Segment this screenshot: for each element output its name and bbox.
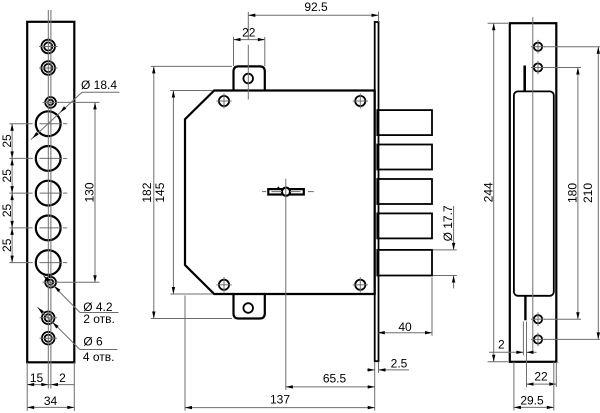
extension line O4.2 top xyxy=(57,101,100,103)
body screw hole bottom right xyxy=(353,277,368,292)
screw hole 4 xyxy=(531,333,545,347)
bolt 3 xyxy=(377,179,432,204)
bolt 1 xyxy=(377,110,432,135)
dimension 244 xyxy=(481,23,508,362)
bolt 2 xyxy=(377,145,432,170)
screw hole 3 xyxy=(531,312,545,326)
extension hole3 right xyxy=(544,318,581,320)
faceplate side outline xyxy=(510,23,557,362)
svg-text:Ø 6: Ø 6 xyxy=(83,335,103,349)
extension hole4 right xyxy=(544,338,600,340)
dimension 182 xyxy=(140,66,232,318)
extension line O4.2 bottom xyxy=(57,281,100,283)
leader O4.2 2 holes xyxy=(43,276,118,327)
screw hole 2 xyxy=(531,61,545,75)
large hole O18.4 no.3 xyxy=(9,181,67,206)
dimension 180 xyxy=(566,68,580,320)
dimension 130 xyxy=(83,102,97,282)
svg-text:145: 145 xyxy=(153,182,167,202)
plate axis centerline xyxy=(50,10,52,389)
svg-text:2.5: 2.5 xyxy=(391,356,408,370)
keyhole notch xyxy=(277,187,280,189)
faceplate edge-on xyxy=(375,22,379,361)
large hole O18.4 no.1 xyxy=(9,111,67,136)
dimension 2.5 faceplate thickness xyxy=(367,356,409,390)
top mounting lug xyxy=(234,66,265,91)
dimension O17.7 bolt xyxy=(433,205,457,288)
bottom lug hole xyxy=(243,303,253,313)
svg-text:34: 34 xyxy=(44,394,58,408)
svg-text:180: 180 xyxy=(566,183,580,203)
keyhole vertical centerline xyxy=(285,179,287,390)
keyhole center circle xyxy=(282,188,290,196)
extension hole1 right xyxy=(544,46,600,48)
keyhole horizontal centerline dashes xyxy=(262,191,314,193)
body screw hole top right xyxy=(353,93,368,108)
dimension 65.5 xyxy=(286,372,375,389)
hole O4.2 bottom xyxy=(43,277,59,288)
svg-text:25: 25 xyxy=(0,238,14,252)
svg-text:Ø 18.4: Ø 18.4 xyxy=(81,78,117,92)
dimension 22 bottom xyxy=(527,362,557,387)
screw hole 1 xyxy=(531,40,545,54)
large hole O18.4 no.4 xyxy=(9,216,67,241)
screw hole bottom 1 (O6 csk) xyxy=(40,312,58,325)
screw hole top 2 (O6 csk) xyxy=(39,61,58,75)
svg-text:244: 244 xyxy=(481,182,495,202)
top lug hole xyxy=(243,74,253,84)
bolt 4 xyxy=(377,213,432,238)
dimension 22 top lug xyxy=(234,26,265,67)
svg-text:210: 210 xyxy=(581,183,595,203)
extension hole2 right xyxy=(544,67,581,69)
faceplate front outline xyxy=(27,22,74,363)
svg-text:2: 2 xyxy=(498,338,505,352)
dimension 210 xyxy=(581,47,600,340)
bolt 5 xyxy=(377,250,432,276)
lock case behind plate xyxy=(514,91,554,295)
svg-text:130: 130 xyxy=(83,182,97,202)
hole axis centerline xyxy=(47,10,49,389)
svg-text:137: 137 xyxy=(270,392,290,406)
svg-text:25: 25 xyxy=(0,134,14,148)
large hole O18.4 no.5 xyxy=(9,250,67,275)
top fixing pin xyxy=(523,66,526,92)
leader O6 4 holes xyxy=(38,307,118,364)
dimension chain 25 x4 xyxy=(0,124,14,263)
lock body outline xyxy=(185,91,375,295)
bottom fixing pin xyxy=(524,296,526,321)
screw hole bottom 2 (O6 csk) xyxy=(40,332,58,345)
dimension 34 xyxy=(27,394,74,409)
svg-text:2 отв.: 2 отв. xyxy=(83,312,115,326)
svg-text:25: 25 xyxy=(0,169,14,183)
svg-text:25: 25 xyxy=(0,204,14,218)
svg-text:4 отв.: 4 отв. xyxy=(83,350,115,364)
extension line plate right edge xyxy=(73,362,75,411)
screw hole top 1 (O6 csk) xyxy=(39,40,58,54)
hole O4.2 top xyxy=(43,97,59,108)
dimension 2 pin xyxy=(489,322,537,388)
vertical axis centerline xyxy=(532,17,534,352)
svg-text:2: 2 xyxy=(59,371,66,385)
svg-text:15: 15 xyxy=(30,371,44,385)
svg-text:92.5: 92.5 xyxy=(304,0,328,14)
extension line plate left edge xyxy=(26,362,28,411)
svg-text:182: 182 xyxy=(140,182,154,202)
dimension 40 xyxy=(378,278,432,336)
svg-text:22: 22 xyxy=(534,370,548,384)
dimension 145 xyxy=(153,91,213,295)
keyhole slot xyxy=(268,189,304,194)
svg-text:Ø 17.7: Ø 17.7 xyxy=(441,205,455,241)
large hole O18.4 no.2 xyxy=(9,146,67,171)
dimension 92.5 xyxy=(248,0,378,17)
dimension 29.5 xyxy=(514,362,554,411)
svg-text:40: 40 xyxy=(398,320,412,334)
bottom mounting lug xyxy=(234,293,265,319)
svg-text:65.5: 65.5 xyxy=(323,372,347,386)
dimension 15 and 2 xyxy=(27,371,74,386)
lug axis centerline xyxy=(247,12,249,40)
svg-text:29.5: 29.5 xyxy=(520,393,544,407)
svg-text:22: 22 xyxy=(242,26,256,40)
body screw hole bottom left xyxy=(216,277,231,292)
dimension 137 xyxy=(185,296,375,411)
extension line faceplate right top xyxy=(378,12,380,23)
body screw hole top left xyxy=(216,93,231,108)
leader O18.4 xyxy=(31,78,120,140)
